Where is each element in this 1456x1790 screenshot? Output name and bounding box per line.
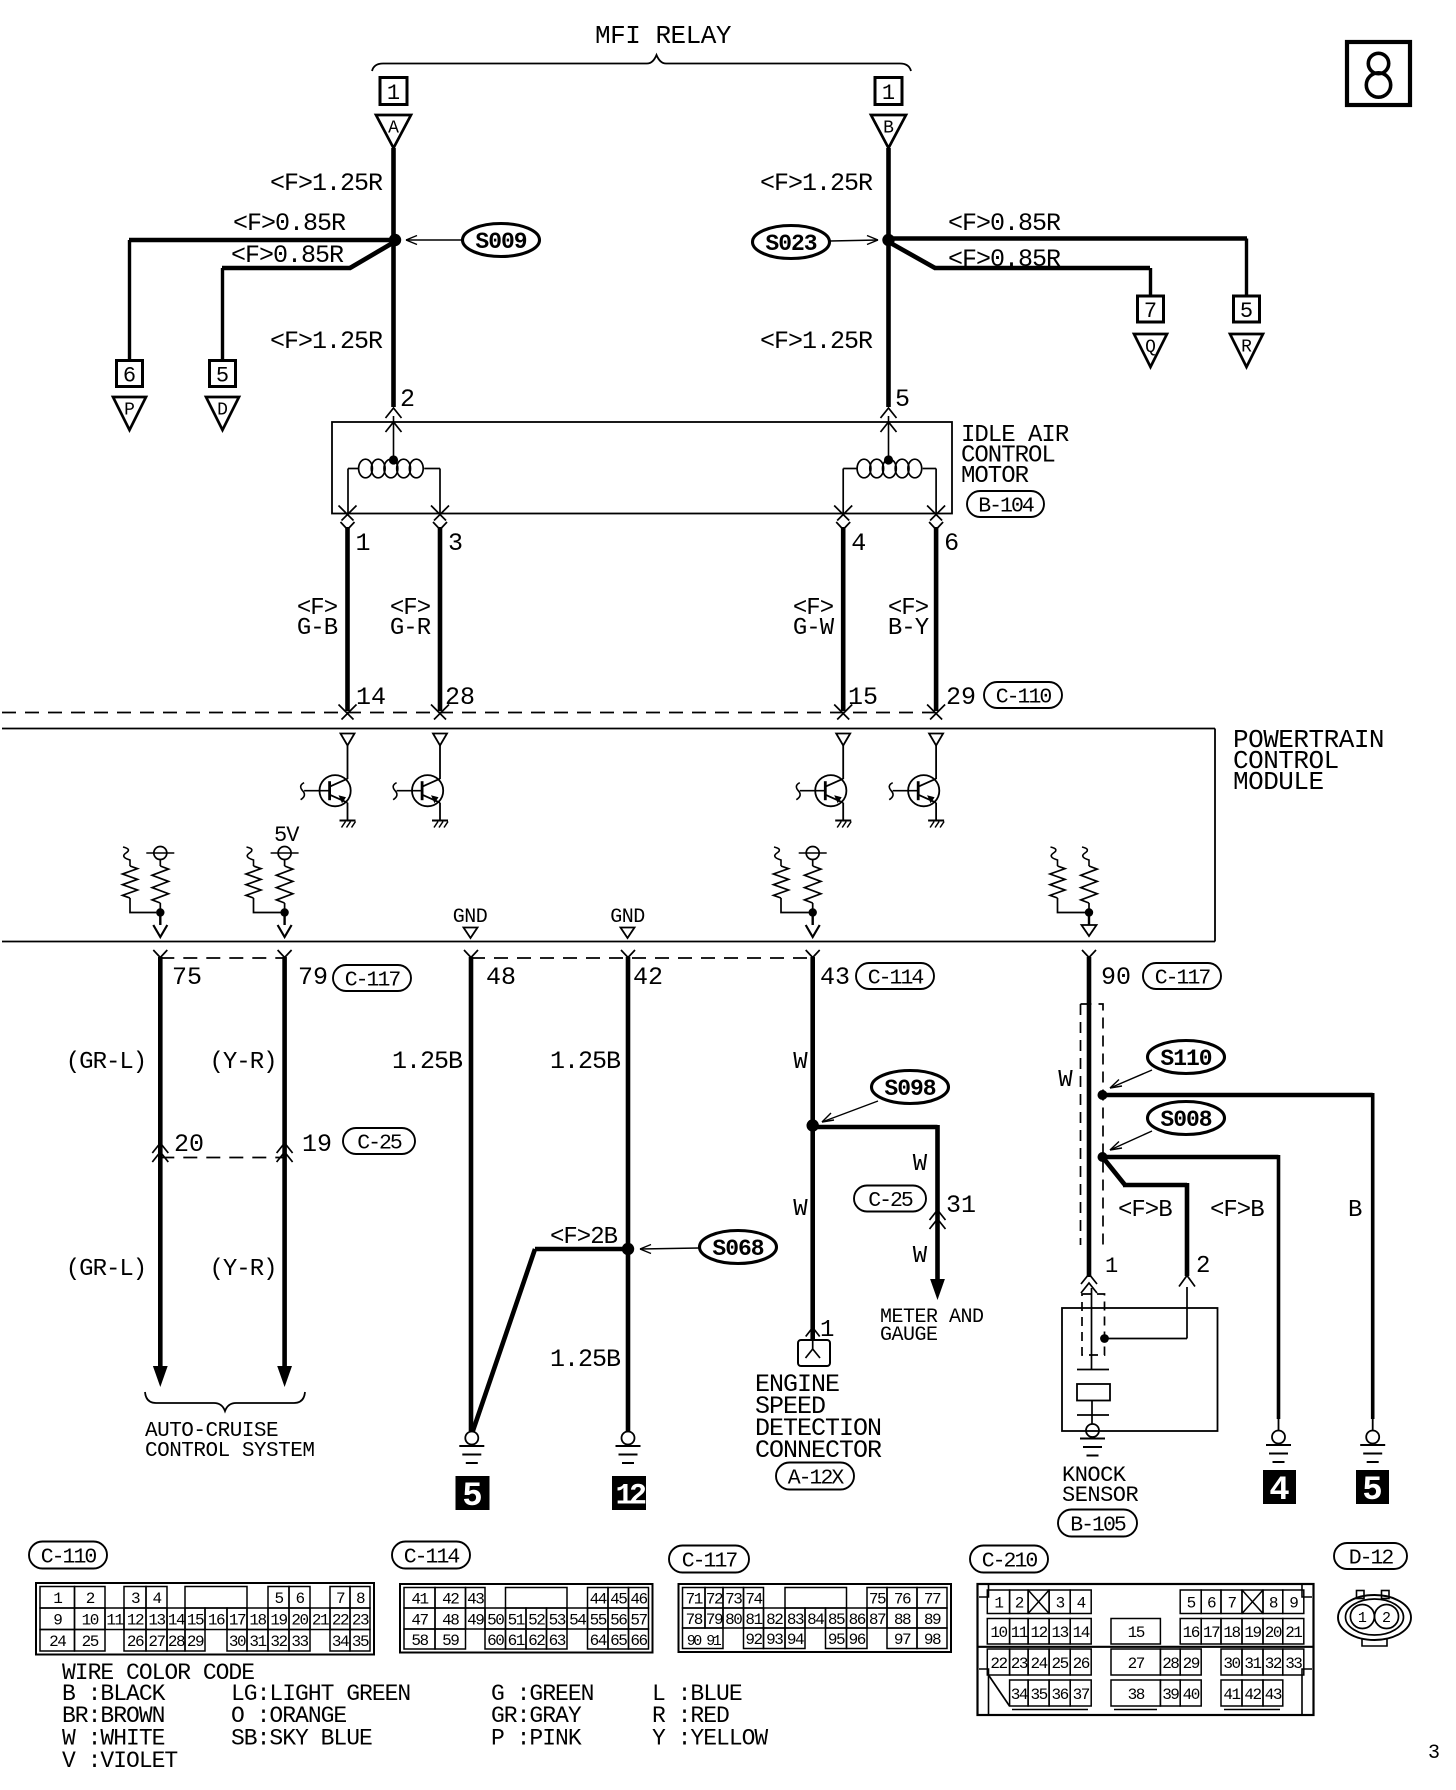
page ref black box 5 (left) xyxy=(456,1477,489,1510)
svg-text:22: 22 xyxy=(990,1655,1007,1673)
wire: coil L1 left lead down xyxy=(347,469,349,514)
terminal flare wire 3 xyxy=(433,522,440,530)
chevron break knock pin 1 xyxy=(1081,1274,1097,1284)
page pointer triangle P xyxy=(113,397,146,430)
svg-text:9: 9 xyxy=(53,1612,62,1630)
svg-text:W: W xyxy=(913,1243,928,1270)
input terminal triangle (PCM) xyxy=(836,734,850,746)
connector C-210 pin grid xyxy=(987,1590,1009,1614)
svg-text:5: 5 xyxy=(274,1590,283,1608)
ground triangle (pin 48) xyxy=(464,928,478,939)
node: IACM pin 5 entry xyxy=(881,422,897,432)
svg-text:B-105: B-105 xyxy=(1070,1513,1126,1537)
svg-text:88: 88 xyxy=(894,1611,911,1629)
terminal flare below PCM xyxy=(464,950,471,958)
wire: second branch horizontal xyxy=(222,266,351,271)
wire: coil L1 right lead down xyxy=(439,469,441,514)
wire: PCM pin 75 to auto-cruise (GR-L) xyxy=(158,957,163,1368)
shield dashed box around wire 90 xyxy=(1081,1004,1104,1245)
svg-text:B: B xyxy=(1348,1197,1362,1224)
page pointer triangle Q xyxy=(1134,334,1167,367)
terminal flare below PCM xyxy=(621,950,628,958)
svg-text:35: 35 xyxy=(352,1633,369,1651)
svg-text:31: 31 xyxy=(249,1633,266,1651)
connector C-110 pin table xyxy=(36,1583,374,1655)
svg-text:33: 33 xyxy=(1285,1655,1302,1673)
connector ref (C-25) right xyxy=(854,1186,926,1212)
svg-text:83: 83 xyxy=(787,1611,804,1629)
svg-text:C-117: C-117 xyxy=(345,968,401,992)
connector pin box 5 (left) xyxy=(210,361,236,387)
svg-text:28: 28 xyxy=(1162,1655,1179,1673)
svg-text:4: 4 xyxy=(1077,1595,1086,1613)
svg-text:<F>B: <F>B xyxy=(1118,1197,1172,1224)
svg-text:3: 3 xyxy=(448,529,463,558)
wire: knock pin 2 lead inside sensor xyxy=(1186,1287,1188,1339)
wire: splice S023 branch right (0.85R) xyxy=(886,236,1247,241)
splice label S068 xyxy=(700,1231,777,1264)
wire: splice S008 to ground (F B) xyxy=(1101,1155,1279,1160)
powertrain control module box top edge xyxy=(2,728,1215,730)
svg-text:19: 19 xyxy=(302,1130,332,1159)
svg-text:17: 17 xyxy=(229,1612,246,1630)
svg-text:90 91: 90 91 xyxy=(687,1633,722,1650)
splice S068 junction dot xyxy=(622,1243,634,1255)
svg-text:7: 7 xyxy=(336,1590,345,1608)
junction dot coil L1 centre tap xyxy=(389,455,398,464)
svg-text:<F>1.25R: <F>1.25R xyxy=(270,327,383,356)
svg-text:5: 5 xyxy=(216,364,229,389)
splice label S008 xyxy=(1148,1102,1225,1135)
input terminal triangle (PCM) xyxy=(929,734,943,746)
wire: splice S110 to ground (B) xyxy=(1100,1093,1373,1098)
terminal chevron at C-110 xyxy=(927,705,942,720)
svg-text:18: 18 xyxy=(1223,1624,1240,1642)
powertrain control module box bottom edge xyxy=(2,941,1215,943)
svg-text:84: 84 xyxy=(807,1611,824,1629)
svg-text:SENSOR: SENSOR xyxy=(1062,1483,1139,1508)
svg-text:57: 57 xyxy=(630,1611,647,1629)
svg-text:(Y-R): (Y-R) xyxy=(209,1049,276,1076)
terminal chevron at C-110 xyxy=(339,705,354,720)
wire: splice S068 branch horizontal xyxy=(535,1247,630,1252)
page ref black box 5 (right) xyxy=(1357,1471,1389,1504)
connector C-117 pin table xyxy=(679,1584,952,1652)
svg-text:32: 32 xyxy=(270,1633,287,1651)
svg-text:71: 71 xyxy=(686,1591,703,1609)
svg-text:96: 96 xyxy=(849,1631,866,1649)
pull-up resistor pair (PCM internal, pin 75) xyxy=(123,847,130,866)
svg-text:41: 41 xyxy=(1223,1686,1240,1704)
svg-text:4: 4 xyxy=(1269,1472,1289,1510)
svg-text:C-25: C-25 xyxy=(357,1131,402,1155)
svg-text:53: 53 xyxy=(549,1611,566,1629)
connector pin box 6 xyxy=(117,361,143,387)
svg-text:14: 14 xyxy=(168,1612,185,1630)
terminal chevron IACM pin 6 xyxy=(927,506,942,521)
svg-text:10: 10 xyxy=(990,1624,1007,1642)
connector ref (A-12X) xyxy=(776,1463,854,1490)
svg-text:16: 16 xyxy=(208,1612,225,1630)
svg-text:G-B: G-B xyxy=(297,615,338,642)
D-12 cavity 2 xyxy=(1375,1605,1399,1629)
svg-text:31: 31 xyxy=(946,1191,976,1220)
connector ref (C-117) table tag xyxy=(669,1546,749,1573)
svg-text:42: 42 xyxy=(442,1591,459,1609)
svg-text:50: 50 xyxy=(487,1611,504,1629)
wire: down to pin box 5 xyxy=(221,268,224,361)
svg-text:GND: GND xyxy=(610,906,645,929)
terminal flare below PCM xyxy=(153,950,160,958)
svg-text:1: 1 xyxy=(356,529,371,558)
svg-text:26: 26 xyxy=(1073,1655,1090,1673)
wire: IACM pin 6 to PCM (pin lead) xyxy=(934,527,939,711)
svg-text:3: 3 xyxy=(131,1590,140,1608)
wire: relay A down to splice S009 xyxy=(391,148,396,242)
wire: PCM pin 42 to ground (1.25B) xyxy=(626,957,631,1431)
terminal chevron wire A into IACM xyxy=(386,408,402,418)
svg-text:94: 94 xyxy=(787,1631,804,1649)
wire: splice S009 branch left (0.85R) xyxy=(129,238,397,243)
svg-text:GAUGE: GAUGE xyxy=(880,1324,938,1347)
svg-text:D-12: D-12 xyxy=(1349,1546,1394,1570)
svg-text:74: 74 xyxy=(745,1591,762,1609)
connector dashed interface below PCM (75-79) xyxy=(160,957,284,959)
terminal chevron IACM pin 4 xyxy=(834,506,849,521)
svg-text:64: 64 xyxy=(590,1632,607,1650)
svg-text:S009: S009 xyxy=(475,229,526,255)
svg-text:95: 95 xyxy=(828,1631,845,1649)
svg-text:10: 10 xyxy=(82,1612,99,1630)
svg-text:B: B xyxy=(883,119,894,139)
svg-text:5: 5 xyxy=(462,1478,482,1516)
wire: IACM pin 4 to PCM (pin lead) xyxy=(841,527,846,711)
svg-text:(GR-L): (GR-L) xyxy=(66,1256,146,1283)
wire: knock pin 1 lead inside sensor xyxy=(1091,1288,1093,1369)
wire: coil L2 right lead down xyxy=(935,469,937,514)
ground triangle (pin 42) xyxy=(621,928,635,939)
svg-text:S068: S068 xyxy=(712,1236,763,1262)
svg-text:59: 59 xyxy=(442,1632,459,1650)
terminal chevron IACM pin 3 xyxy=(431,506,446,521)
terminal flare wire 4 xyxy=(836,522,843,530)
wire: IACM pin 1 to PCM (pin lead) xyxy=(345,527,350,711)
diagonal notch C-210 bottom left xyxy=(989,1675,1010,1706)
svg-text:20: 20 xyxy=(174,1130,204,1159)
svg-text:36: 36 xyxy=(1052,1686,1069,1704)
svg-text:C-25: C-25 xyxy=(868,1189,913,1213)
svg-text:49: 49 xyxy=(467,1611,484,1629)
svg-text:19: 19 xyxy=(270,1612,287,1630)
svg-text:W: W xyxy=(793,1049,808,1076)
svg-text:22: 22 xyxy=(332,1612,349,1630)
svg-text:29: 29 xyxy=(187,1633,204,1651)
svg-text:GND: GND xyxy=(453,906,488,929)
svg-text:5V: 5V xyxy=(274,823,300,848)
splice S110 junction dot (shield) xyxy=(1098,1090,1108,1100)
svg-text:9: 9 xyxy=(1289,1595,1298,1613)
svg-text:35: 35 xyxy=(1030,1686,1047,1704)
wire: splice S068 branch diagonal to ground 48 xyxy=(473,1249,536,1432)
svg-text:3: 3 xyxy=(1056,1595,1065,1613)
svg-text:75: 75 xyxy=(869,1591,886,1609)
svg-text:C-117: C-117 xyxy=(682,1549,738,1573)
svg-text:3: 3 xyxy=(1428,1742,1440,1765)
svg-text:5: 5 xyxy=(1240,299,1253,324)
svg-text:A-12X: A-12X xyxy=(788,1466,845,1490)
svg-text:B-104: B-104 xyxy=(978,494,1034,518)
svg-text:W: W xyxy=(913,1151,928,1178)
svg-text:19: 19 xyxy=(1244,1624,1261,1642)
svg-text:60: 60 xyxy=(487,1632,504,1650)
leader arrow from S098 oval to junction xyxy=(822,1101,878,1122)
page pointer triangle A xyxy=(376,115,411,148)
svg-text:R: R xyxy=(1241,338,1252,358)
arrowhead wire 79 xyxy=(277,1366,292,1387)
page ref black box 12 xyxy=(613,1477,646,1510)
splice S009 junction dot xyxy=(389,234,401,246)
svg-text:MFI RELAY: MFI RELAY xyxy=(595,21,732,51)
terminal chevron IACM pin 1 xyxy=(339,506,354,521)
connector dashed interface below PCM (48-43) xyxy=(471,957,813,959)
wire: second branch horizontal to pin 7 xyxy=(934,266,1150,271)
wire: down to pin box 7 xyxy=(1149,268,1152,297)
ground symbol (wire 48) xyxy=(465,1432,478,1445)
terminal chevron wire B into IACM xyxy=(881,408,897,418)
node: IACM pin 2 entry xyxy=(386,422,402,432)
knock sensor piezo element xyxy=(1077,1369,1109,1371)
svg-text:<F>1.25R: <F>1.25R xyxy=(760,327,873,356)
svg-text:66: 66 xyxy=(630,1632,647,1650)
svg-text:13: 13 xyxy=(1052,1624,1069,1642)
svg-text:1: 1 xyxy=(1105,1254,1118,1279)
svg-text:43: 43 xyxy=(820,963,850,992)
wire: relay B down to splice S023 xyxy=(886,148,891,242)
page pointer triangle R xyxy=(1230,334,1263,367)
svg-text:6: 6 xyxy=(944,529,959,558)
svg-text:42: 42 xyxy=(1244,1686,1261,1704)
svg-text:90: 90 xyxy=(1101,963,1131,992)
page ref black box 4 xyxy=(1264,1471,1296,1504)
svg-text:C-114: C-114 xyxy=(404,1545,460,1569)
svg-text:26: 26 xyxy=(127,1633,144,1651)
svg-text:30: 30 xyxy=(229,1633,246,1651)
svg-text:Q: Q xyxy=(1145,338,1156,358)
svg-text:C-110: C-110 xyxy=(41,1545,97,1569)
svg-text:55: 55 xyxy=(590,1611,607,1629)
arrowhead to meter and gauge xyxy=(930,1279,945,1300)
svg-text:<F>1.25R: <F>1.25R xyxy=(270,169,383,198)
svg-text:93: 93 xyxy=(766,1631,783,1649)
svg-text:11: 11 xyxy=(1011,1624,1028,1642)
transistor driver (PCM internal) xyxy=(908,775,939,806)
svg-text:13: 13 xyxy=(148,1612,165,1630)
input terminal triangle (PCM) xyxy=(341,734,355,746)
svg-text:23: 23 xyxy=(352,1612,369,1630)
svg-text:P: P xyxy=(124,401,135,421)
svg-text:C-117: C-117 xyxy=(1155,966,1211,990)
pull-up resistor pair 5V (PCM internal, pin 79) xyxy=(247,847,254,866)
svg-text:79: 79 xyxy=(298,963,328,992)
wire: splice S008 branch to knock sensor pin 2 xyxy=(1103,1157,1126,1185)
connector ref (C-114) table tag xyxy=(392,1542,470,1569)
svg-text:<F>B: <F>B xyxy=(1210,1197,1264,1224)
page pointer triangle B xyxy=(871,115,906,148)
svg-text:48: 48 xyxy=(442,1611,459,1629)
splice label S110 xyxy=(1148,1041,1225,1074)
svg-text:CONNECTOR: CONNECTOR xyxy=(755,1436,882,1465)
svg-text:4: 4 xyxy=(152,1590,161,1608)
svg-text:W: W xyxy=(793,1196,808,1223)
arrowhead wire 75 xyxy=(153,1366,168,1387)
connector C-114 pin table xyxy=(400,1584,653,1653)
knock sensor box xyxy=(1062,1308,1218,1431)
splice label S023 xyxy=(753,226,830,259)
splice label S098 xyxy=(872,1071,949,1104)
svg-text:56: 56 xyxy=(610,1611,627,1629)
svg-text:80: 80 xyxy=(725,1611,742,1629)
svg-text:54: 54 xyxy=(569,1611,586,1629)
svg-text:27: 27 xyxy=(148,1633,165,1651)
page pointer triangle D xyxy=(206,397,239,430)
shield dashed box inside knock sensor xyxy=(1082,1294,1105,1355)
connector ref (C-110) xyxy=(984,682,1062,708)
transistor driver (PCM internal) xyxy=(320,775,351,806)
svg-text:5: 5 xyxy=(1187,1595,1196,1613)
svg-text:P :PINK: P :PINK xyxy=(491,1726,582,1752)
svg-text:27: 27 xyxy=(1128,1655,1145,1673)
svg-text:15: 15 xyxy=(187,1612,204,1630)
svg-text:92: 92 xyxy=(745,1631,762,1649)
svg-text:C-114: C-114 xyxy=(868,966,924,990)
svg-text:89: 89 xyxy=(924,1611,941,1629)
connector pin box 1 (relay terminal B) xyxy=(875,78,902,105)
svg-text:32: 32 xyxy=(1265,1655,1282,1673)
connector ref (C-110) table tag xyxy=(29,1542,107,1569)
svg-text:48: 48 xyxy=(486,963,516,992)
connector pin box 7 xyxy=(1138,296,1164,322)
ground symbol (wire B right) xyxy=(1366,1431,1379,1444)
svg-text:<F>1.25R: <F>1.25R xyxy=(760,169,873,198)
svg-text:25: 25 xyxy=(82,1633,99,1651)
svg-text:CONTROL SYSTEM: CONTROL SYSTEM xyxy=(145,1440,314,1463)
D-12 bottom tab xyxy=(1362,1640,1387,1647)
input terminal triangle (PCM) xyxy=(433,734,447,746)
svg-text:24: 24 xyxy=(49,1633,66,1651)
svg-text:4: 4 xyxy=(851,529,866,558)
svg-text:86: 86 xyxy=(849,1611,866,1629)
connector pin box 5 (right) xyxy=(1234,296,1260,322)
wire: splice S023 second branch diagonal xyxy=(887,241,935,268)
svg-text:37: 37 xyxy=(1073,1686,1090,1704)
terminal flare wire 1 xyxy=(341,522,348,530)
resistor pair (PCM internal, pin 90) xyxy=(1051,847,1058,866)
svg-text:25: 25 xyxy=(1052,1655,1069,1673)
svg-text:1: 1 xyxy=(1358,1610,1367,1627)
svg-text:42: 42 xyxy=(633,963,663,992)
ground symbol (wire B middle) xyxy=(1272,1431,1285,1444)
svg-text:15: 15 xyxy=(848,683,878,712)
splice S008 junction dot (shield) xyxy=(1098,1152,1108,1162)
svg-text:63: 63 xyxy=(549,1632,566,1650)
D-12 top tabs xyxy=(1357,1591,1365,1599)
svg-text:18: 18 xyxy=(249,1612,266,1630)
svg-text:W: W xyxy=(1058,1067,1073,1094)
svg-text:(GR-L): (GR-L) xyxy=(66,1049,146,1076)
svg-text:77: 77 xyxy=(924,1591,941,1609)
brace auto-cruise control system xyxy=(145,1392,305,1411)
splice S098 junction dot xyxy=(807,1119,819,1131)
svg-text:(Y-R): (Y-R) xyxy=(209,1256,276,1283)
wire: PCM pin 48 to ground (1.25B) xyxy=(469,957,474,1431)
terminal flare below PCM xyxy=(806,950,813,958)
terminal flare wire 6 xyxy=(929,522,936,530)
svg-text:24: 24 xyxy=(1030,1655,1047,1673)
idle air control motor box B-104 xyxy=(332,422,952,514)
svg-text:1: 1 xyxy=(387,81,400,106)
coil L1 (IACM left winding) xyxy=(359,459,373,478)
svg-text:2: 2 xyxy=(400,385,415,414)
wire: down to pin box 6 xyxy=(128,240,131,361)
svg-text:12: 12 xyxy=(1030,1624,1047,1642)
svg-text:73: 73 xyxy=(725,1591,742,1609)
dashed interface C-25 (20-19) xyxy=(160,1157,284,1159)
svg-text:<F>0.85R: <F>0.85R xyxy=(948,245,1061,274)
connector ref (C-117) right tag xyxy=(1143,963,1221,989)
svg-text:52: 52 xyxy=(528,1611,545,1629)
svg-text:85: 85 xyxy=(828,1611,845,1629)
terminal chevron at C-110 xyxy=(834,705,849,720)
terminal chevron at ESD connector xyxy=(806,1328,820,1337)
svg-text:46: 46 xyxy=(630,1591,647,1609)
terminal flare below PCM xyxy=(278,950,285,958)
svg-text:98: 98 xyxy=(924,1631,941,1649)
svg-text:S098: S098 xyxy=(884,1076,935,1102)
svg-text:33: 33 xyxy=(291,1633,308,1651)
svg-text:6: 6 xyxy=(295,1590,304,1608)
connector ref (D-12) tag xyxy=(1334,1543,1407,1569)
svg-text:B-Y: B-Y xyxy=(888,615,929,642)
leader arrow from S110 oval to junction xyxy=(1110,1070,1152,1088)
svg-text:D: D xyxy=(217,401,228,421)
wire: PCM pin 79 to auto-cruise (Y-R) xyxy=(282,957,287,1368)
svg-text:21: 21 xyxy=(1285,1624,1302,1642)
svg-text:76: 76 xyxy=(894,1591,911,1609)
wire: splice S023 down to IACM pin 5 xyxy=(886,240,891,407)
leader arrow from S023 oval to junction xyxy=(830,240,878,241)
powertrain control module box right edge xyxy=(1214,729,1216,942)
svg-text:12: 12 xyxy=(615,1480,646,1514)
svg-text:51: 51 xyxy=(508,1611,525,1629)
pull-up resistor pair (PCM internal, pin 43) xyxy=(774,847,781,866)
svg-text:<F>2B: <F>2B xyxy=(550,1224,618,1251)
svg-text:S008: S008 xyxy=(1160,1107,1211,1133)
connector ref (B-105) xyxy=(1058,1510,1137,1537)
svg-text:47: 47 xyxy=(411,1611,428,1629)
svg-text:7: 7 xyxy=(1227,1595,1236,1613)
wire: splice S098 branch to meter xyxy=(811,1125,938,1130)
svg-text:G-R: G-R xyxy=(390,615,431,642)
svg-text:17: 17 xyxy=(1203,1624,1220,1642)
svg-text:6: 6 xyxy=(123,364,136,389)
svg-text:1.25B: 1.25B xyxy=(392,1047,463,1076)
svg-text:8: 8 xyxy=(1269,1595,1278,1613)
svg-text:1.25B: 1.25B xyxy=(550,1047,621,1076)
svg-text:79: 79 xyxy=(706,1611,723,1629)
wire: splice S009 down to IACM pin 2 xyxy=(391,240,396,407)
svg-text:G-W: G-W xyxy=(793,615,835,642)
ground symbol (knock sensor) xyxy=(1086,1424,1099,1437)
